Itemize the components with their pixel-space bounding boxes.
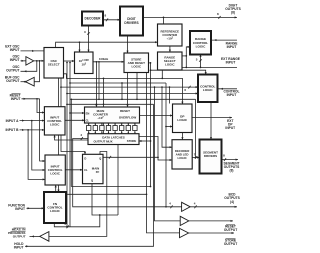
wire reset output	[189, 220, 233, 222]
svg-text:LOGIC: LOGIC	[203, 88, 214, 92]
svg-text:INPUT A: INPUT A	[6, 119, 20, 123]
block MAIN COUNTER	[85, 107, 140, 123]
wire osc-select to fn-control vertical	[57, 78, 59, 192]
wire dp-logic to decoder-led	[181, 133, 183, 140]
svg-text:DECODER: DECODER	[85, 17, 102, 21]
wire range-select up into range-control	[185, 46, 190, 68]
svg-text:(8): (8)	[231, 11, 235, 15]
svg-text:INPUT: INPUT	[227, 45, 237, 49]
pin BUF OSC OUTPUT	[5, 75, 20, 83]
block MAIN FF	[83, 154, 104, 183]
svg-text:INPUT: INPUT	[10, 48, 20, 52]
wire store net to data-latches store pin	[139, 140, 151, 142]
svg-text:INPUT: INPUT	[227, 93, 237, 97]
svg-text:LOGIC: LOGIC	[50, 123, 60, 127]
wire input-B	[20, 129, 45, 131]
wire osc-select top to reference-counter	[56, 41, 158, 47]
wire main-ff bottom	[92, 184, 118, 216]
wire main-counter overflow	[140, 114, 173, 116]
wire store track to control-logic top	[150, 69, 207, 74]
label 4 bcd bus right	[169, 201, 171, 205]
pin INPUT B	[6, 128, 20, 132]
wire osc input to amp	[21, 60, 26, 62]
wire store net vertical	[149, 62, 152, 187]
wire range input	[211, 39, 237, 41]
label 3 decoder bus	[84, 30, 86, 34]
pin RANGE INPUT	[226, 41, 239, 49]
block DIGIT DRIVERS	[120, 7, 143, 36]
svg-text:STORE: STORE	[127, 139, 137, 143]
label 6 on control-logic input	[184, 88, 186, 92]
svg-text:RESET: RESET	[120, 109, 130, 113]
label 7 segment bus	[194, 152, 196, 156]
wire data-latches bottom down	[117, 145, 119, 216]
block INPUT CONTROL LOGIC A	[44, 107, 65, 135]
wire osc amp out	[34, 60, 44, 62]
wire store output	[189, 232, 234, 234]
wire vertical x122	[121, 82, 123, 100]
wire digit-drivers to store-reset	[126, 36, 128, 54]
wire osc bus x61 to main FF D	[61, 78, 86, 154]
block STORE AND RESET LOGIC	[124, 53, 149, 73]
wire control input	[218, 88, 238, 90]
svg-text:DRIVERS: DRIVERS	[204, 154, 217, 158]
block OSC SELECT	[44, 48, 64, 79]
wire buf-osc buffer input	[34, 61, 39, 82]
wire osc node down x70	[69, 62, 71, 227]
label 8 decoder bus	[104, 14, 106, 18]
wire mesh track y104	[66, 103, 153, 105]
meas in progress buffer	[40, 232, 49, 242]
latch row 8 digit latches	[87, 123, 138, 134]
wire ext-range up into range-control bottom	[199, 55, 202, 68]
pin RESET OUTPUT	[224, 225, 237, 233]
svg-text:DRIVERS: DRIVERS	[124, 21, 138, 25]
block RANGE SELECT LOGIC	[158, 52, 183, 70]
wire branch into reference-counter top	[163, 17, 165, 24]
block DECODER	[82, 12, 103, 26]
wire meas output	[30, 235, 40, 237]
wire vertical x195.5	[195, 99, 197, 158]
svg-text:Q: Q	[91, 179, 93, 183]
svg-text:LOGIC: LOGIC	[178, 156, 188, 160]
svg-text:D: D	[84, 156, 86, 160]
wire input-A branch to input-control-B	[32, 121, 45, 171]
wire osc-select to divider	[62, 60, 75, 62]
reset output buffer	[180, 216, 189, 225]
svg-text:OUTPUT: OUTPUT	[13, 234, 26, 238]
pin RESET INPUT	[10, 93, 21, 101]
wire bcd outputs	[190, 205, 237, 208]
buf osc output buffer	[25, 77, 34, 86]
pin SEGMENT OUTPUTS (8)	[223, 161, 240, 172]
wire osc node down x67	[66, 62, 68, 228]
wire reset to input-control-A	[37, 99, 44, 114]
svg-text:EN: EN	[86, 112, 90, 116]
wire function input	[27, 207, 45, 209]
wire reference-counter to range-select	[169, 46, 171, 52]
block FN CONTROL LOGIC	[44, 192, 66, 223]
wire vertical x169.5	[169, 86, 171, 103]
wire range-select to dp-logic top	[161, 70, 183, 104]
pin INPUT A	[6, 119, 20, 123]
wire store-reset to store buffer	[146, 73, 180, 233]
wire vertical x99	[98, 61, 100, 100]
label 5 range bus	[196, 57, 198, 61]
wire 100kHz down to main-counter top	[95, 61, 97, 107]
wire input-control-A to main-counter	[65, 119, 85, 121]
block INPUT CONTROL LOGIC B	[45, 155, 65, 185]
svg-text:FF: FF	[96, 170, 100, 174]
block DP LOGIC	[173, 104, 193, 133]
svg-text:100kHz: 100kHz	[99, 57, 109, 61]
wire mesh track y99	[70, 98, 195, 100]
label 4 bcd outputs	[194, 201, 196, 205]
store output buffer	[180, 228, 189, 237]
svg-text:INPUT: INPUT	[11, 97, 21, 101]
wire reset to input-control-B	[40, 99, 45, 162]
wire ext-dp input	[192, 117, 232, 119]
block DATA LATCHES OUTPUT MUX	[88, 134, 139, 145]
svg-text:CL: CL	[84, 168, 88, 172]
pin EXT DP INPUT	[225, 119, 235, 130]
wire to input-control-A bottom	[54, 78, 105, 140]
wire input-A	[20, 120, 45, 122]
svg-text:OUTPUT: OUTPUT	[224, 228, 237, 232]
wire store-reset to main-counter reset	[126, 73, 128, 108]
wire reset net to reset buffer	[154, 86, 181, 221]
wire decoder-led to segment-drivers	[192, 156, 199, 159]
wire osc output	[21, 61, 37, 73]
wire bus x166 to dp-logic	[165, 83, 167, 208]
label 4 fn bus	[64, 222, 66, 226]
svg-text:INPUT: INPUT	[14, 246, 24, 250]
osc input amplifier	[26, 57, 34, 66]
pin OSC OUTPUT	[6, 65, 20, 73]
svg-text:INPUT: INPUT	[225, 126, 235, 130]
wire divider 100kHz to store-reset	[93, 61, 124, 63]
wire ext-range input	[182, 67, 237, 69]
svg-text:CL: CL	[86, 119, 90, 123]
wire fn-control 4-bus	[54, 215, 100, 228]
wire main-ff Q to meas buffer	[49, 152, 107, 237]
pin STORE OUTPUT	[224, 238, 237, 246]
svg-text:(8): (8)	[230, 169, 234, 173]
wire bus to control-logic input2	[66, 92, 198, 94]
svg-text:LOGIC: LOGIC	[196, 44, 207, 48]
wire decoder to digit-drivers	[103, 18, 120, 21]
svg-text:INPUT: INPUT	[226, 61, 236, 65]
pin EXT RANGE INPUT	[221, 57, 241, 65]
wire ext-osc input	[21, 50, 45, 52]
svg-text:OUTPUT: OUTPUT	[224, 242, 237, 246]
wire input-B branch to input-control-B	[28, 130, 45, 181]
label 8 digit outputs	[217, 12, 219, 16]
pin EXT OSC INPUT	[5, 44, 20, 52]
svg-text:LOGIC: LOGIC	[132, 64, 142, 68]
svg-text:LOGIC: LOGIC	[50, 172, 60, 176]
label 100kHz	[99, 57, 109, 61]
wire track y78 from osc-select	[64, 74, 163, 79]
wire reset input	[22, 98, 40, 100]
pin BCD OUTPUTS (4)	[224, 193, 240, 204]
wire decoder 3-bus	[87, 26, 90, 53]
svg-text:LOGIC: LOGIC	[50, 209, 61, 213]
wire input-control-B to main-ff	[65, 169, 82, 171]
wire bus x162 to decoder-led	[161, 86, 172, 148]
label 4 bcd bus left	[80, 133, 82, 137]
label 8 segment outputs	[223, 153, 225, 157]
pin FUNCTION INPUT	[8, 203, 25, 211]
wire hold input	[25, 104, 154, 247]
block REFERENCE COUNTER	[158, 24, 183, 46]
wire vertical x71	[70, 99, 72, 186]
svg-text:OUTPUT: OUTPUT	[6, 79, 19, 83]
wire track y83 to dp inputs	[69, 82, 166, 84]
wire bus to control-logic input1	[60, 86, 198, 89]
pin OSC INPUT	[10, 55, 20, 63]
wire divider top branch	[78, 42, 80, 52]
wire bcd bus	[73, 137, 182, 208]
svg-text:INPUT: INPUT	[10, 58, 20, 62]
block divider 10^4 OR 10^5	[75, 52, 94, 74]
block DECODER AND LED LOGIC	[172, 140, 192, 169]
wire branch to main-counter EN	[69, 112, 84, 114]
bcd output buffer	[182, 202, 191, 211]
wire main-ff Q run	[103, 156, 158, 159]
pin DIGIT OUTPUTS (8)	[225, 3, 241, 14]
wire digit outputs	[143, 16, 237, 19]
block RANGE CONTROL LOGIC	[190, 31, 211, 55]
svg-text:OUTPUT: OUTPUT	[6, 69, 19, 73]
svg-text:OUTPUT MUX: OUTPUT MUX	[93, 140, 112, 144]
wire control-logic to segment-drivers	[210, 102, 212, 140]
svg-text:Q: Q	[99, 156, 101, 160]
wire buf-osc output	[21, 81, 26, 83]
svg-text:OVERFLOW: OVERFLOW	[119, 115, 137, 119]
pin HOLD INPUT	[14, 242, 24, 250]
pin CONTROL INPUT	[223, 90, 239, 98]
svg-text:SELECT: SELECT	[48, 63, 60, 67]
wire y186 link	[71, 186, 150, 188]
wire store-reset bottom x137	[136, 73, 138, 100]
wire range-select to range-control	[182, 55, 187, 57]
wire into dp-logic input2	[165, 125, 172, 127]
wire data-latches to decoder-led	[139, 137, 172, 162]
svg-text:(4): (4)	[230, 200, 234, 204]
block SEGMENT DRIVERS	[200, 140, 222, 174]
wire segment outputs	[222, 158, 239, 161]
svg-text:INPUT B: INPUT B	[6, 128, 20, 132]
svg-text:LOGIC: LOGIC	[177, 118, 188, 122]
svg-text:INPUT: INPUT	[15, 207, 25, 211]
block CONTROL LOGIC	[198, 75, 218, 103]
pin MEAS IN PROGRESS OUTPUT	[8, 228, 26, 239]
svg-text:LOGIC: LOGIC	[165, 63, 175, 67]
wire input-control-B bottom feed	[55, 185, 147, 194]
